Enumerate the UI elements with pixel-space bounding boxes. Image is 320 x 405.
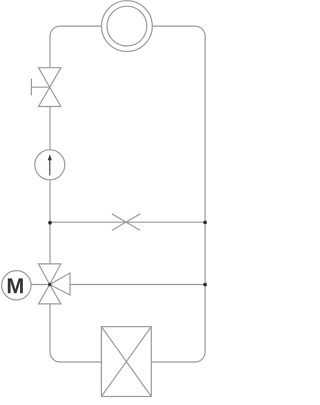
tank/gauge (double circle) bbox=[102, 1, 153, 52]
valve (closed, X symbol) on bypass bbox=[112, 214, 140, 231]
wire: bypass line bbox=[50, 221, 205, 223]
three-way valve bbox=[39, 264, 71, 304]
motor M actuator bbox=[2, 271, 31, 300]
junction node: left bypass bbox=[48, 221, 52, 225]
pipe loop (main circuit) bbox=[50, 26, 205, 362]
junction node: right bypass bbox=[203, 221, 207, 225]
pump (circle with arrow) bbox=[35, 150, 65, 180]
shut-off valve (manual, with handle) bbox=[31, 68, 61, 107]
heat exchanger (rect with X) bbox=[101, 327, 151, 397]
wire: mixing return line bbox=[31, 284, 205, 286]
junction node: right mixing line bbox=[203, 283, 207, 287]
